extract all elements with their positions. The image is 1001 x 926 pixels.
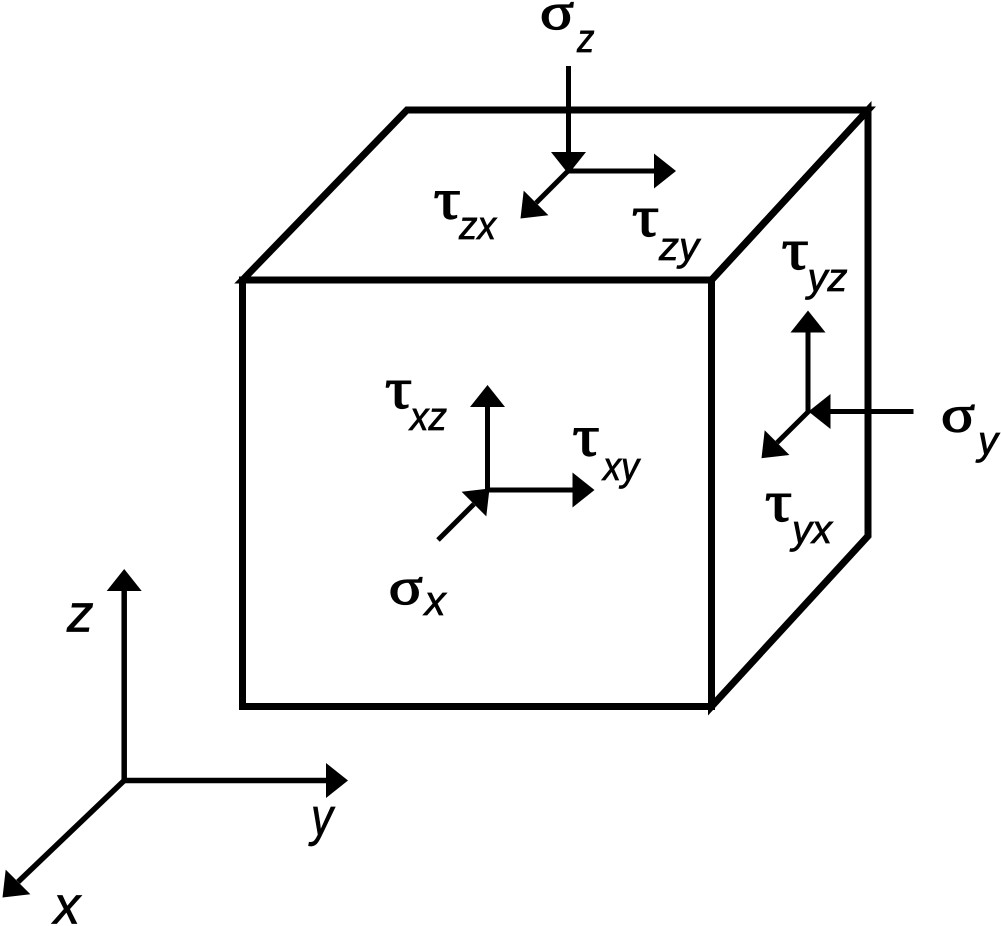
z axis arrow xyxy=(107,569,142,781)
svg-text:τ: τ xyxy=(632,184,659,249)
label sigma_x xyxy=(389,559,448,624)
svg-text:zy: zy xyxy=(658,225,702,269)
label tau_xy xyxy=(573,404,642,489)
arrow tau_yx (shear on right face toward +x) xyxy=(762,410,811,458)
label tau_zy xyxy=(632,184,702,269)
svg-text:τ: τ xyxy=(434,167,461,232)
svg-text:yz: yz xyxy=(805,256,848,300)
svg-text:x: x xyxy=(51,877,83,926)
label tau_yx xyxy=(765,469,834,552)
arrow tau_xz (shear on front face toward +z) xyxy=(470,385,505,492)
y axis arrow xyxy=(124,763,348,798)
cube front face xyxy=(243,280,712,707)
svg-text:σ: σ xyxy=(389,559,423,616)
arrow sigma_y (normal stress on right face) xyxy=(809,394,914,429)
svg-text:σ: σ xyxy=(540,0,574,41)
arrow sigma_x (normal stress on front face) xyxy=(438,489,490,541)
y axis label xyxy=(309,788,336,847)
label tau_zx xyxy=(434,167,498,249)
label sigma_z xyxy=(540,0,595,61)
x axis arrow xyxy=(3,781,125,898)
svg-text:τ: τ xyxy=(765,469,792,534)
svg-text:x: x xyxy=(423,577,448,624)
x axis label xyxy=(51,877,83,926)
svg-text:τ: τ xyxy=(573,404,600,469)
arrow tau_yz (shear on right face toward +z) xyxy=(791,311,826,414)
svg-text:y: y xyxy=(309,788,336,847)
svg-text:τ: τ xyxy=(782,217,809,282)
cube right face xyxy=(712,110,869,707)
arrow sigma_z (normal stress on top face) xyxy=(551,66,586,174)
arrow tau_zx (shear on top face toward +x) xyxy=(521,169,571,219)
svg-text:zx: zx xyxy=(458,204,498,248)
svg-text:xz: xz xyxy=(408,395,447,439)
svg-text:z: z xyxy=(576,17,594,61)
cube top face xyxy=(243,110,869,280)
z axis label xyxy=(66,585,94,644)
label tau_yz xyxy=(782,217,848,300)
label sigma_y xyxy=(941,387,1001,463)
svg-text:xy: xy xyxy=(601,445,642,489)
svg-text:τ: τ xyxy=(385,356,412,421)
svg-text:y: y xyxy=(975,419,1001,463)
svg-text:yx: yx xyxy=(789,508,834,552)
svg-text:z: z xyxy=(66,585,94,644)
label tau_xz xyxy=(385,356,447,439)
arrow tau_zy (shear on top face toward +y) xyxy=(566,154,676,189)
arrow tau_xy (shear on front face toward +y) xyxy=(485,473,595,508)
svg-text:σ: σ xyxy=(941,387,975,444)
